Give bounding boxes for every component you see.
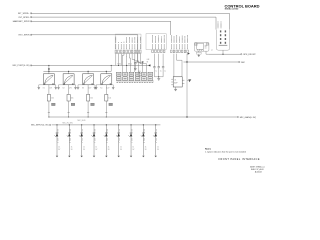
ground at K2 left — [57, 88, 60, 89]
wires J2 down to caps — [154, 54, 163, 67]
port label INT_SPKR+ — [18, 13, 32, 15]
svg-text:MIC_GAIN(0..3V): MIC_GAIN(0..3V) — [240, 116, 257, 119]
connector J2 outline — [146, 34, 166, 50]
wire mic input bus — [52, 124, 161, 126]
ground tap right of J3 column — [187, 79, 191, 82]
port label EXT_SPKR — [19, 34, 32, 36]
label block left of J2 caps — [138, 71, 142, 77]
LS1 pad and ground — [197, 51, 202, 55]
svg-text:INT_SPKR+: INT_SPKR+ — [18, 13, 30, 15]
svg-text:MIC_BUS: MIC_BUS — [78, 120, 87, 122]
title CONTROL BOARD — [225, 3, 260, 10]
led branch D1 — [54, 124, 61, 155]
contact grid labels — [117, 82, 155, 84]
port label MIC_GAIN(0..3V) — [237, 116, 256, 119]
wire INT_SPKR- net — [31, 17, 216, 30]
resistor R3 — [87, 85, 95, 118]
svg-text:Notes: Notes — [205, 147, 212, 150]
svg-text:INT_SPKR-: INT_SPKR- — [19, 17, 30, 19]
ground at D3 — [80, 156, 82, 158]
svg-text:MIC_5: MIC_5 — [105, 138, 107, 143]
svg-text:SPK_FRONT: SPK_FRONT — [243, 54, 256, 56]
ground at K4 left — [95, 88, 98, 89]
ground at C2 — [157, 79, 160, 81]
led branch D4 — [91, 124, 98, 155]
led branch D2 — [67, 124, 74, 155]
svg-text:MIC2: MIC2 — [128, 64, 132, 66]
svg-text:1k: 1k — [108, 147, 110, 149]
svg-text:FRONT PANEL INTERFACE: FRONT PANEL INTERFACE — [219, 158, 260, 161]
ground at U1 — [174, 89, 177, 91]
capacitor C3 — [162, 67, 166, 77]
junction MK1 to SPK net — [222, 54, 223, 55]
port label HANDSET_SPKR — [13, 20, 32, 23]
ground at D2 — [68, 156, 70, 158]
wire LS1 to SPK_FRONT — [209, 53, 241, 55]
svg-text:SEL2: SEL2 — [68, 129, 70, 133]
relay K3 — [78, 71, 95, 88]
relay K3 value labels — [82, 87, 92, 89]
svg-text:K2: K2 — [63, 87, 65, 89]
svg-text:1k: 1k — [145, 147, 147, 149]
wire MIC net — [184, 61, 239, 63]
arrow feed from mic port net — [48, 65, 50, 71]
port label MIC — [239, 61, 246, 63]
connector J1 — [115, 50, 141, 54]
junction rail/J3 column — [186, 116, 187, 117]
capacitor C2 — [158, 67, 162, 77]
svg-text:1k: 1k — [71, 147, 73, 149]
svg-text:MIC_6: MIC_6 — [118, 138, 120, 143]
svg-text:SEL1: SEL1 — [56, 129, 58, 133]
wire HANDSET_SPKR net — [31, 21, 171, 35]
svg-text:MIC_9: MIC_9 — [155, 138, 157, 143]
svg-text:10k: 10k — [108, 98, 111, 100]
ground at K3 left — [77, 88, 80, 89]
svg-text:MIC: MIC — [241, 62, 245, 64]
MK1 pin labels — [217, 22, 219, 29]
notes text — [205, 147, 246, 153]
svg-text:1k: 1k — [157, 147, 159, 149]
relay K4 value labels — [100, 87, 110, 89]
wire relay bus — [43, 65, 111, 72]
svg-text:K3: K3 — [82, 87, 84, 89]
port label SPK_FRONT — [241, 54, 257, 56]
svg-text:1u: 1u — [155, 71, 157, 73]
svg-text:1k: 1k — [58, 147, 60, 149]
ground at K1 right — [55, 88, 58, 89]
wire INT_SPKR+ net — [31, 13, 229, 29]
wire MIC_PORT net — [31, 64, 150, 66]
svg-text:EXT_SPKR: EXT_SPKR — [19, 35, 30, 37]
wire EXT_SPKR net — [31, 35, 138, 62]
svg-text:A-00044: A-00044 — [255, 170, 262, 173]
ground at D4 — [93, 156, 95, 158]
wire mic gain rail — [49, 116, 237, 118]
marker at J3 pin 7 — [188, 53, 190, 55]
svg-text:10k: 10k — [51, 98, 54, 100]
ground at D6 — [118, 156, 120, 158]
svg-text:K1: K1 — [43, 87, 45, 89]
relay K2 — [59, 71, 76, 88]
relay K4 — [96, 71, 113, 88]
connector J1 outline — [115, 34, 141, 49]
capacitor C1 — [153, 67, 157, 77]
junction on mic net — [118, 65, 119, 66]
drawing number block — [250, 166, 264, 174]
ground at K3 right — [94, 88, 97, 89]
wires J3 down — [174, 54, 187, 117]
led branch D9 — [153, 124, 160, 155]
svg-text:MIC_3: MIC_3 — [81, 138, 83, 143]
ground at C4 — [134, 69, 137, 70]
led branch D8 — [141, 124, 148, 155]
op-amp U1 — [171, 77, 184, 89]
svg-text:1k: 1k — [132, 147, 134, 149]
microphone array MK1 — [216, 30, 229, 54]
relay K2 value labels — [63, 87, 73, 89]
port label MIC_PORT(0..3V) — [13, 65, 32, 67]
relay K1 value labels — [43, 87, 53, 89]
ground at K4 right — [112, 88, 115, 89]
svg-text:MODEL 5-27040: MODEL 5-27040 — [225, 8, 239, 11]
led branch D3 — [79, 124, 86, 155]
ground at D7 — [130, 156, 132, 158]
svg-text:MIC_PORT(0..3V): MIC_PORT(0..3V) — [13, 65, 30, 67]
led branch D6 — [116, 124, 123, 155]
contact grid S1 — [117, 72, 155, 81]
svg-text:MIC_7: MIC_7 — [130, 138, 132, 143]
ground at LS1 — [198, 55, 201, 57]
svg-text:ASSY 29860-C-5: ASSY 29860-C-5 — [250, 166, 264, 169]
cap common node and ground — [154, 76, 163, 78]
ground at D5 — [105, 156, 107, 158]
led branch D5 — [104, 124, 111, 155]
ground at D1 — [56, 156, 58, 158]
wires J1 to mic port net and contact grid — [116, 54, 147, 72]
svg-text:MIC_1: MIC_1 — [56, 138, 58, 143]
resistor R4 — [105, 85, 113, 118]
svg-text:MIC_INPUT(0..3V): MIC_INPUT(0..3V) — [31, 125, 49, 127]
svg-text:1k: 1k — [83, 147, 85, 149]
junction MIC/J3 column — [186, 61, 187, 62]
svg-text:MIC_IN_SEL: MIC_IN_SEL — [63, 123, 74, 125]
svg-text:K4: K4 — [100, 87, 102, 89]
svg-text:MIC_8: MIC_8 — [142, 138, 144, 143]
led branch D7 — [128, 124, 135, 155]
svg-text:SEL3: SEL3 — [81, 129, 83, 133]
ground at K2 right — [74, 88, 77, 89]
wedge ground right of C4 — [138, 61, 144, 65]
loudspeaker LS1 — [194, 42, 213, 51]
svg-text:SEL9: SEL9 — [155, 129, 157, 133]
svg-text:1. Ignore indicates that the p: 1. Ignore indicates that the port is not… — [205, 150, 246, 153]
svg-text:HANDSET_SPKR: HANDSET_SPKR — [13, 20, 30, 23]
svg-text:SEL6: SEL6 — [118, 129, 120, 133]
ground at D8 — [142, 156, 144, 158]
svg-text:U1: U1 — [174, 80, 176, 82]
svg-text:MIC_2: MIC_2 — [68, 138, 70, 143]
svg-text:MIC_4: MIC_4 — [93, 138, 95, 143]
port label INT_SPKR- — [19, 16, 32, 18]
svg-text:1u: 1u — [164, 71, 166, 73]
svg-text:SEL8: SEL8 — [142, 129, 144, 133]
port label MIC_INPUT(0..3V) — [31, 124, 51, 126]
connector J3 — [171, 35, 189, 53]
connector J1 pin labels — [116, 37, 140, 50]
svg-text:10k: 10k — [90, 98, 93, 100]
svg-text:REF: REF — [138, 73, 141, 75]
svg-text:SEL5: SEL5 — [105, 129, 107, 133]
relay K1 — [39, 71, 56, 88]
svg-text:1u: 1u — [160, 71, 162, 73]
ground at K1 left — [38, 88, 41, 89]
svg-text:10k: 10k — [71, 98, 74, 100]
capacitor C4 — [134, 62, 138, 68]
connector J2 — [152, 35, 165, 53]
resistor R2 — [67, 85, 75, 118]
resistor R1 — [47, 85, 55, 118]
svg-text:SEL4: SEL4 — [93, 129, 95, 133]
svg-text:1k: 1k — [120, 147, 122, 149]
svg-text:p1: p1 — [211, 49, 213, 51]
svg-text:SEL7: SEL7 — [130, 129, 132, 133]
svg-text:1k: 1k — [95, 147, 97, 149]
ground at D9 — [155, 156, 157, 158]
